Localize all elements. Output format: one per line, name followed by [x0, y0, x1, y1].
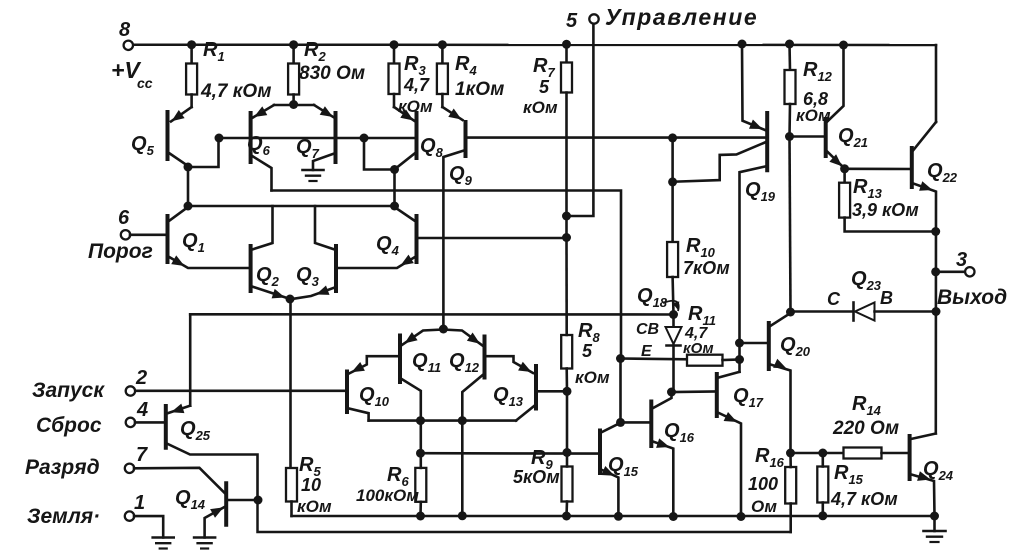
node Q21 emitter R13 Q22 base: [840, 164, 849, 173]
svg-text:100: 100: [748, 474, 778, 494]
svg-text:2: 2: [135, 367, 147, 389]
node Q24 emitter on lower right rail: [930, 512, 939, 521]
resistor R4 1k: [437, 40, 504, 107]
resistor R2 830 Ohm: [288, 39, 365, 105]
transistor Q25 pnp reset: [166, 406, 211, 448]
wire Q12 base elbow to Q13 emitter with arrow: [485, 356, 534, 373]
svg-text:кОм: кОм: [523, 98, 558, 117]
diode Q23 with C B labels: [791, 268, 941, 321]
wire R12 node down to output diode line: [790, 137, 791, 312]
transistor Q5 pnp: [131, 112, 168, 159]
svg-text:6: 6: [118, 207, 130, 229]
wire comparator output rail from Q6 collector to flip flop: [272, 191, 622, 359]
resistor R16 100 Ohm: [748, 445, 796, 516]
svg-text:СВ: СВ: [636, 321, 659, 338]
wire Q8 collector diagonal to node: [390, 152, 417, 174]
resistor R9 5k: [513, 447, 573, 516]
wire node to Q22 base: [845, 168, 912, 171]
transistor Q20 npn: [769, 323, 811, 369]
wire rail left end down to Q25: [189, 314, 192, 405]
node R6 bottom: [416, 512, 425, 521]
node R10 top of body: [668, 177, 677, 186]
wire Q13 base to R8 node: [536, 387, 572, 396]
wire Q16 emitter down to rail with arrow: [651, 438, 673, 516]
wire flip flop node down to Q15 collector and Q16 base: [616, 359, 625, 427]
resistor R10 7k: [667, 133, 730, 314]
wire Q7 collector to ground: [313, 153, 336, 170]
transistor Q4 pnp: [376, 216, 417, 262]
svg-text:220 Ом: 220 Ом: [832, 418, 899, 439]
resistor R13 3.9k: [839, 169, 936, 232]
wire R2 node to Q7 emitter with arrow: [314, 105, 334, 118]
wire Q17 collector up to R11 node: [717, 372, 740, 378]
node diode Q18 anode: [669, 310, 678, 319]
node Q20 collector on diode line: [786, 308, 795, 317]
wire base rail tie down to Q8 collector node: [360, 134, 395, 170]
transistor Q6 pnp: [247, 113, 271, 162]
wire lower node line Q10 to Q13: [369, 419, 516, 422]
pin 1 terminal Zemlya ground: [27, 492, 145, 528]
wire Q2 collector up to node rail: [251, 206, 273, 250]
node Q11 Q12 common emitters: [439, 325, 448, 334]
svg-text:B: B: [880, 288, 893, 308]
node Q12 wire bottom: [458, 511, 467, 520]
transistor Q17 npn: [717, 374, 764, 416]
wire Q19 collector to R10 node: [674, 142, 767, 182]
wire Q16 collector up to diode node: [651, 392, 671, 409]
resistor R3 4.7k: [389, 40, 434, 116]
pin 7 terminal Razryad discharge: [25, 444, 148, 479]
wire pin2 trigger line to Q10 base: [135, 389, 347, 392]
svg-text:E: E: [641, 343, 653, 360]
svg-text:кОм: кОм: [683, 340, 714, 357]
pin 3 terminal Vyhod output: [931, 249, 1007, 309]
svg-text:Управление: Управление: [605, 4, 758, 30]
node Q17 emitter bottom: [737, 512, 746, 521]
node R15 bottom: [818, 511, 827, 520]
wire lowest rail Q14 node to R16 bottom: [258, 500, 791, 532]
wire R2 node to Q6 emitter with arrow: [253, 105, 274, 118]
wire Q24 emitter to ground with arrow: [910, 471, 935, 516]
svg-text:4,7 кОм: 4,7 кОм: [830, 489, 898, 509]
pin 6 terminal Porog threshold: [88, 207, 166, 263]
transistor Q24 npn: [910, 436, 954, 483]
svg-text:кОм: кОм: [575, 368, 610, 387]
wire Q20 base from node: [740, 342, 769, 345]
wire Q13 collector to lower node line: [516, 405, 536, 421]
svg-text:Ом: Ом: [751, 497, 777, 516]
svg-text:Сброс: Сброс: [36, 414, 102, 437]
wire pin7 to Q14 collector: [134, 468, 226, 495]
node Q2 Q3 emitters common: [286, 295, 295, 304]
resistor R14 220 Ohm horizontal: [832, 393, 910, 459]
transistor Q13 pnp: [493, 366, 536, 409]
svg-text:Порог: Порог: [88, 240, 153, 263]
svg-text:5: 5: [582, 341, 593, 361]
wire top rail right corner down to Q22 collector: [935, 45, 938, 122]
wire Q21 emitter to node with arrow: [826, 150, 845, 169]
transistor Q12 pnp: [449, 337, 485, 378]
resistor R1 4.7k: [186, 39, 271, 107]
svg-text:4,7 кОм: 4,7 кОм: [200, 81, 271, 102]
wire Q1 emitter to Q2 base with arrow: [168, 255, 250, 268]
svg-text:Разряд: Разряд: [25, 456, 100, 479]
ground symbol at Q14 emitter: [194, 538, 215, 549]
svg-text:7кОм: 7кОм: [683, 258, 730, 278]
svg-text:100кОм: 100кОм: [356, 486, 419, 505]
wire Q4 collector diagonal up to node: [395, 207, 417, 222]
wire Q5 collector diagonal to node: [168, 152, 189, 166]
wire comparator line E to R11: [616, 354, 687, 363]
node R13 bottom on output line: [931, 227, 940, 236]
pin 5 terminal Upravlenie control: [566, 4, 758, 32]
svg-text:Выход: Выход: [937, 286, 1007, 309]
transistor Q11 pnp: [400, 336, 441, 383]
node Q25 Q14 junction: [254, 496, 263, 505]
svg-text:1кОм: 1кОм: [455, 79, 504, 100]
node R15 top: [818, 449, 827, 458]
wire Q14 emitter to ground with arrow: [205, 506, 227, 538]
svg-text:830 Ом: 830 Ом: [299, 63, 365, 84]
wire Q3 emitter to common with arrow: [292, 286, 336, 300]
wire Q15 collector diagonal: [600, 423, 620, 433]
wire +Vcc top rail pin8 to right edge: [133, 43, 936, 46]
transistor Q7 pnp: [296, 113, 336, 162]
svg-text:5: 5: [566, 10, 578, 32]
svg-text:Земля·: Земля·: [27, 505, 100, 528]
transistor Q18 diode connected: [636, 285, 679, 360]
node R2 bottom feeding Q6 Q7 emitters: [274, 100, 314, 109]
wire Q20 emitter down to R16 with arrow: [769, 359, 791, 453]
ground symbol output stage: [924, 516, 946, 542]
wire Q10 collector elbow to lower node line: [347, 408, 369, 421]
wire Q1 collector diagonal up: [168, 207, 189, 222]
wire Q17 emitter down to rail with arrow: [717, 412, 741, 517]
svg-text:4,7: 4,7: [403, 75, 430, 95]
diode Q18 body: [666, 315, 682, 390]
wire R1 to Q5 emitter with arrow: [171, 107, 192, 122]
svg-text:4: 4: [136, 399, 148, 421]
wire Q17 base from diode node: [672, 390, 717, 393]
svg-text:C: C: [827, 289, 841, 309]
resistor R15 4.7k: [817, 453, 897, 516]
node control junction on R7 wire: [562, 212, 571, 221]
wire Q10 emitter elbow to Q11 base with arrow: [349, 356, 400, 373]
transistor Q21 npn: [826, 119, 868, 156]
svg-text:Запуск: Запуск: [32, 379, 105, 402]
svg-text:cc: cc: [137, 75, 153, 91]
wire long rail to diode Q18 anode: [190, 313, 674, 316]
node Q16 emitter bottom: [669, 512, 678, 521]
wire Q3 collector up to node rail: [315, 206, 336, 250]
transistor Q8 pnp: [417, 113, 444, 160]
transistor Q14 npn discharge: [175, 483, 226, 525]
wire Q5 Q6 Q7 Q8 base rail: [219, 137, 417, 140]
ground symbol at pin 1: [153, 538, 174, 549]
wire pin5 down and left to R7 node: [567, 24, 594, 216]
wire Q25 emitter from rail with arrow: [169, 404, 191, 414]
svg-text:3,9 кОм: 3,9 кОм: [852, 200, 919, 220]
wire common node to Q12 emitter with arrow: [443, 330, 482, 346]
svg-text:1: 1: [134, 492, 145, 514]
wire R4 to Q9 emitter with arrow: [442, 107, 462, 120]
wire Q9 collector down to Q11 Q12 emitters: [443, 150, 465, 329]
svg-text:кОм: кОм: [297, 497, 332, 516]
wire Q19 emitter from top rail with arrow: [738, 40, 766, 131]
wire Q15 emitter to rail with arrow: [600, 466, 618, 516]
svg-text:3: 3: [956, 249, 967, 271]
transistor Q3 pnp: [296, 246, 336, 291]
wire R7 down to control node: [565, 93, 568, 238]
resistor R12 6.8k: [785, 40, 833, 137]
node R12 bottom to Q21 base: [785, 132, 826, 141]
wire Q12 collector down to rail: [458, 374, 485, 516]
wire R8 node down to R9: [563, 391, 572, 457]
node Q15 emitter bottom: [614, 512, 623, 521]
transistor Q10 pnp trigger input: [347, 372, 390, 413]
node R16 top: [786, 449, 795, 458]
wire Q11 collector down to R6 top: [400, 378, 425, 425]
svg-text:5кОм: 5кОм: [513, 467, 560, 487]
wire Q21 collector up to top rail: [826, 41, 848, 124]
wire R16 R15 R14 top line: [791, 452, 844, 455]
wire Q22 collector from top rail: [912, 122, 936, 152]
wire Q8 collector node down to comparator node rail: [393, 170, 396, 207]
wire comparator node rail: [188, 202, 399, 211]
wire Q2 Q3 common emitters down to R5: [289, 299, 292, 468]
svg-text:10: 10: [301, 475, 321, 495]
wire Q5 node down to Q1 collector node: [184, 167, 193, 211]
resistor R7 5k: [523, 40, 572, 117]
pin 8 terminal: [111, 19, 153, 91]
svg-text:5: 5: [539, 77, 550, 97]
wire Q22 emitter down output line with arrow: [912, 181, 936, 433]
transistor Q16 npn: [651, 402, 694, 447]
wire Q4 emitter to Q3 base with arrow: [336, 255, 417, 268]
wire Q24 collector from output line: [911, 434, 936, 440]
ground symbol at Q7: [303, 170, 324, 181]
wire R3 to Q8 emitter with arrow: [394, 107, 415, 121]
node R9 bottom: [562, 512, 571, 521]
wire Q9 base rail to Q19 base: [466, 136, 768, 139]
wire Q6 collector down to comparator rail: [251, 155, 272, 191]
resistor R11 4.7k horizontal: [683, 303, 740, 366]
transistor Q1 pnp threshold input: [168, 216, 205, 262]
node diode cathode to Q16 collector and Q17 base: [667, 388, 676, 397]
transistor Q15 npn: [600, 431, 639, 480]
wire Q5 base tie: [184, 134, 224, 172]
wire pin1 to ground: [134, 516, 163, 537]
wire Q20 collector diagonal up: [769, 313, 791, 327]
wire Q25 collector elbow down to Q14 node: [166, 443, 258, 500]
pin 4 terminal Sbros reset: [36, 399, 166, 437]
wire common node to Q11 emitter with arrow: [402, 330, 443, 346]
wire Q19 second collector down to Q20 base: [740, 166, 768, 343]
pin 2 terminal Zapusk trigger: [32, 367, 147, 402]
wire Q16 base to node: [621, 421, 652, 424]
wire Q14 base to node: [226, 499, 258, 502]
transistor Q9 pnp: [449, 122, 473, 188]
wire R11 node vertical: [735, 339, 744, 372]
wire bottom rail R5 to ground node: [292, 515, 935, 518]
resistor R8 5k: [561, 238, 610, 392]
wire Q2 emitter to common with arrow: [251, 286, 290, 299]
resistor R6 100k: [356, 421, 426, 516]
wire R16 bottom to lower rail: [789, 504, 792, 533]
svg-text:8: 8: [119, 19, 131, 41]
svg-text:7: 7: [136, 444, 148, 466]
transistor Q19 npn: [745, 113, 776, 204]
transistor Q2 pnp: [251, 246, 280, 291]
wire R6 top line to Q15 base: [421, 452, 601, 455]
wire Q4 base to control node: [417, 233, 572, 242]
resistor R5 10k: [286, 454, 332, 516]
transistor Q22 npn: [912, 148, 958, 187]
